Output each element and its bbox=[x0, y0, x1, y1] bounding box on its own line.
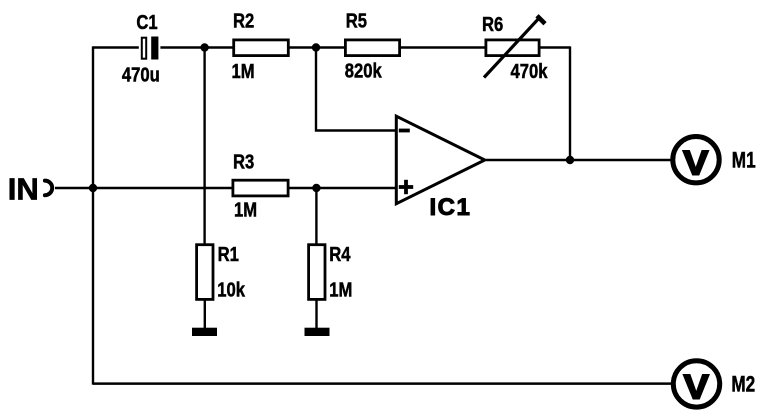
svg-text:R5: R5 bbox=[346, 9, 367, 32]
svg-text:10k: 10k bbox=[217, 278, 245, 301]
svg-text:820k: 820k bbox=[345, 59, 383, 82]
svg-text:1M: 1M bbox=[232, 60, 255, 83]
svg-text:R6: R6 bbox=[482, 13, 503, 36]
svg-text:R2: R2 bbox=[233, 9, 254, 32]
svg-text:R1: R1 bbox=[218, 242, 239, 265]
svg-text:V: V bbox=[683, 143, 708, 182]
svg-text:1M: 1M bbox=[234, 198, 257, 221]
svg-text:R3: R3 bbox=[233, 150, 254, 173]
svg-text:V: V bbox=[684, 367, 709, 406]
svg-text:M2: M2 bbox=[731, 373, 755, 398]
svg-text:M1: M1 bbox=[732, 149, 756, 174]
svg-text:C1: C1 bbox=[136, 10, 157, 33]
svg-text:R4: R4 bbox=[329, 242, 351, 265]
svg-text:1M: 1M bbox=[329, 278, 352, 301]
svg-text:470k: 470k bbox=[511, 59, 549, 82]
svg-text:470u: 470u bbox=[122, 63, 160, 86]
svg-text:IN: IN bbox=[8, 172, 39, 207]
svg-text:IC1: IC1 bbox=[430, 194, 472, 221]
